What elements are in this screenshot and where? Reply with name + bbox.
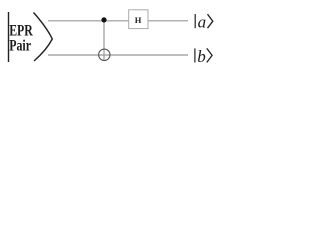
svg-text:H: H: [135, 15, 142, 25]
svg-text:b: b: [197, 47, 206, 66]
svg-text:Pair: Pair: [9, 37, 31, 54]
svg-text:a: a: [198, 13, 207, 32]
